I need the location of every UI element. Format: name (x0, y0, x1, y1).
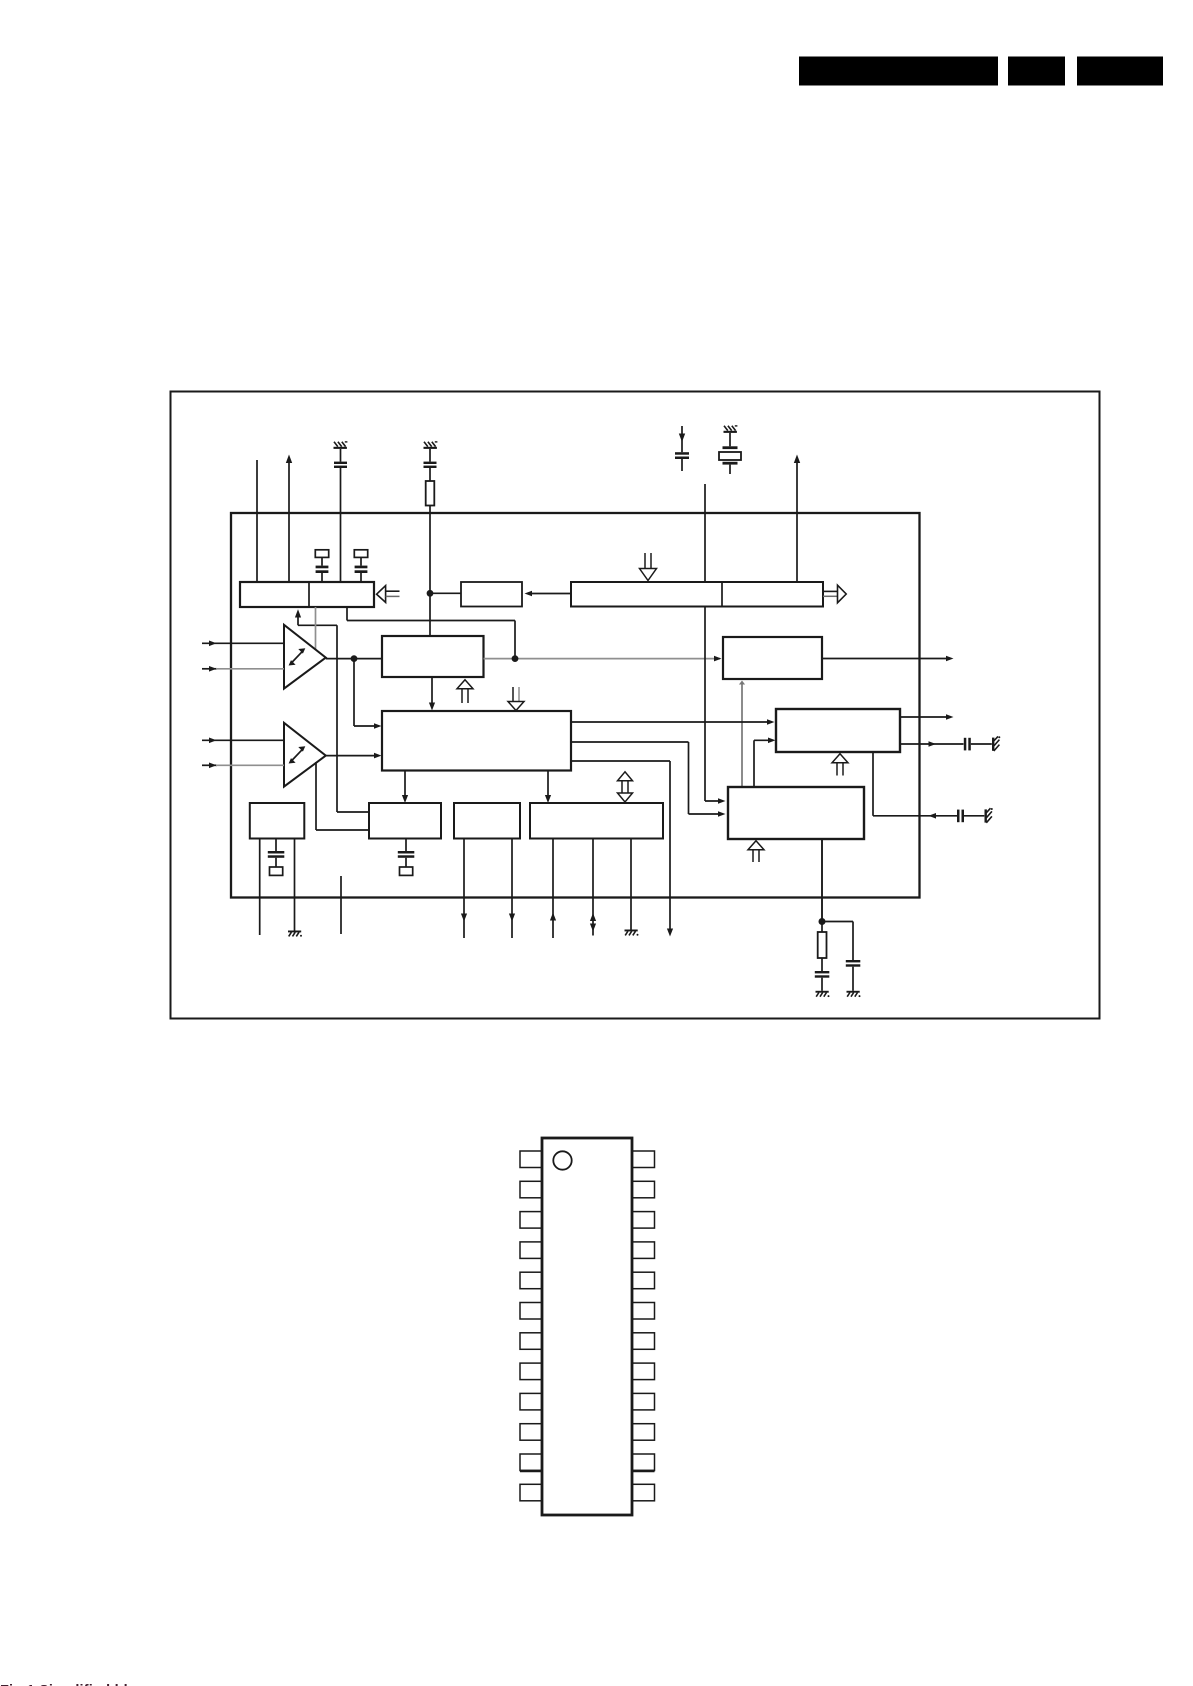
wire pin V1 (256, 460, 258, 582)
wire mixer bottom to B3 (402, 771, 408, 804)
redaction bar 1 (799, 57, 998, 86)
crystal X1 (719, 433, 741, 474)
wire demod output (822, 656, 954, 662)
wire T2 slope to correlator (316, 762, 369, 830)
wire mute output 2 with arrow (900, 741, 964, 747)
wire mixer output 3 to pin (571, 761, 673, 937)
ground G8 (816, 991, 830, 997)
node C (351, 655, 358, 662)
supply block (240, 582, 374, 607)
block B4 (454, 803, 520, 839)
pin 1 indicator circle (553, 1151, 571, 1169)
IC package body (542, 1138, 632, 1515)
block B1 (382, 636, 484, 677)
wire R1 to node A (429, 506, 431, 637)
ground G1 (334, 441, 348, 449)
redaction bar 2 (1008, 57, 1065, 86)
wire B1 down arrow (429, 677, 435, 711)
capacitor C6 with reservoir (268, 839, 285, 876)
ground G5 (985, 808, 993, 823)
open left arrow at supply block (377, 586, 400, 603)
node A (427, 590, 434, 597)
right pins 13-24 (632, 1151, 655, 1501)
wire stray pin (340, 876, 342, 934)
capacitor C4 (964, 738, 992, 751)
open up arrow U1 (457, 680, 473, 703)
ground G2 (424, 441, 438, 449)
resistor R1 (426, 481, 435, 506)
figure frame (171, 392, 1100, 1019)
wire mute bottom to external cap (873, 752, 957, 819)
wire B6 pin left (259, 839, 261, 935)
wire B5 pin 2 double arrow (590, 839, 596, 936)
wire correlator to mute (754, 738, 776, 788)
node D (819, 918, 826, 925)
capacitor C1 (334, 449, 347, 582)
ground G3 (724, 425, 738, 433)
ground G6 (288, 931, 302, 937)
ground G4 (992, 736, 1000, 751)
input IN1 (202, 641, 284, 647)
correlator box (728, 787, 864, 839)
wire node C to mixer (354, 659, 382, 729)
wire register to oscillator arrow (525, 591, 572, 597)
mute box (776, 709, 900, 752)
capacitor C5 (957, 810, 984, 823)
wire B4 pin 1 down arrow (461, 839, 467, 938)
capacitor C2 (424, 449, 437, 481)
op-amp T2 (284, 723, 326, 787)
node B (512, 655, 519, 662)
op-amp T1 (284, 625, 326, 689)
wire L from supply to node B (347, 607, 515, 659)
wire T2 output to mixer (326, 753, 382, 759)
wire B1 output gray to demod (484, 656, 722, 662)
capacitor S2 with reservoir (354, 550, 367, 582)
open right arrow at register (823, 585, 846, 603)
open double arrow above B5 (618, 772, 633, 802)
redaction bar 3 (1077, 57, 1163, 86)
capacitor C9 (846, 960, 861, 991)
wire pin V4 (704, 484, 706, 582)
resistor R2 (818, 922, 827, 959)
ground G7 (625, 930, 639, 936)
input IN4 (202, 763, 284, 769)
block B5 (530, 803, 663, 839)
wire mixer output 1 to mute (571, 719, 775, 725)
block B6 left (250, 803, 304, 839)
wire node D to C9 (822, 922, 853, 961)
capacitor C8 (815, 958, 830, 991)
long register block (571, 582, 823, 607)
wire mute line down (337, 625, 369, 812)
left pins 1-12 (520, 1151, 542, 1501)
wire mixer output 2 to correlator (571, 742, 726, 817)
wire gray gain line (315, 607, 317, 650)
wire feedback arrow into supply block (295, 609, 337, 625)
block B2 mixer (382, 711, 571, 771)
pin 14 right thick edge (632, 1470, 655, 1473)
wire B5 pin 1 up arrow (550, 839, 556, 938)
wire gray correlator to demod arrow (739, 681, 745, 788)
open down arrow D2 (640, 553, 657, 581)
ground G9 (847, 991, 861, 997)
input IN2 (202, 666, 284, 672)
wire B5 pin 3 to ground (630, 839, 632, 930)
wire mixer bottom to B5 (545, 771, 551, 804)
block B3 correlator gate (369, 803, 441, 839)
wire pin V3 with up arrow (794, 455, 800, 583)
wire pin V2 with up arrow (286, 455, 292, 583)
wire node A to oscillator box (430, 592, 461, 594)
wire correlator output to node D (821, 839, 823, 922)
demodulator box (723, 637, 822, 679)
open up arrow U3 (748, 841, 764, 862)
wire T1 output (326, 658, 382, 660)
open down arrow D1 (508, 687, 524, 711)
capacitor C3 with down arrow (675, 426, 689, 471)
IC inner boundary box (231, 513, 920, 898)
wire B6 to ground (294, 839, 296, 931)
oscillator box (461, 582, 522, 607)
capacitor S1 with reservoir (315, 550, 328, 582)
wire B4 pin 2 down arrow (509, 839, 515, 938)
capacitor C7 with reservoir (398, 839, 415, 876)
pin 11 left thick edge (520, 1470, 542, 1473)
open up arrow U2 (832, 754, 848, 776)
wire mute output 1 (900, 714, 954, 720)
input IN3 (202, 738, 284, 744)
wire register to correlator (705, 607, 726, 804)
